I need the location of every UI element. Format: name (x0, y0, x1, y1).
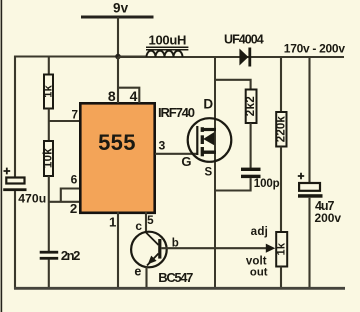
wire pin 4 (118, 88, 139, 103)
svg-text:BC547: BC547 (158, 270, 193, 285)
diode D1 UF4004 (239, 49, 248, 66)
IC U1 555 (80, 103, 154, 213)
resistor R4 2k2 (246, 90, 257, 124)
svg-text:c: c (135, 219, 142, 233)
svg-text:3: 3 (159, 139, 166, 153)
wire base to wiper arrow (161, 247, 266, 249)
wire pin 3 (155, 153, 198, 155)
resistor R1 1k (44, 75, 53, 109)
capacitor C4 4u7 (299, 183, 320, 191)
wire 220k to pot (280, 147, 282, 233)
9v supply rail (81, 16, 154, 19)
ground rail (14, 287, 345, 290)
svg-text:volt: volt (246, 255, 267, 267)
resistor R3 220k (276, 112, 286, 147)
svg-text:200v: 200v (315, 211, 342, 225)
wire 470u to ground rail (14, 191, 16, 289)
transistor Q1 BC547 (131, 232, 167, 268)
svg-text:e: e (134, 264, 141, 278)
wire R1 to R2 (48, 109, 50, 142)
svg-text:2: 2 (70, 201, 77, 216)
svg-text:2n2: 2n2 (61, 248, 81, 263)
wire branch to R1 (48, 57, 50, 75)
svg-text:out: out (250, 267, 268, 279)
capacitor C1 470u plus (4, 168, 11, 175)
wire 4u7 to ground rail (308, 198, 310, 289)
wire left rail (14, 56, 16, 178)
svg-text:1k: 1k (276, 242, 288, 255)
svg-text:220k: 220k (275, 116, 287, 143)
capacitor C1 470u (6, 178, 24, 184)
wire pin 6 (61, 189, 80, 202)
wire output to 220k (280, 57, 282, 112)
wire 9v rail to junction (117, 17, 119, 57)
svg-text:170v - 200v: 170v - 200v (284, 42, 346, 56)
potentiometer VR1 1k (276, 232, 287, 267)
wire top horizontal left (14, 55, 146, 57)
svg-text:1: 1 (109, 214, 116, 229)
wire pin 2 (49, 201, 80, 203)
capacitor C4 4u7 plus (298, 173, 304, 179)
svg-text:8: 8 (108, 88, 116, 104)
svg-text:7: 7 (72, 108, 79, 121)
wire 2n2 to ground rail (48, 260, 50, 290)
wire pin 1 (117, 212, 119, 289)
svg-text:D: D (203, 97, 213, 112)
wire pot to ground rail (280, 267, 282, 290)
inductor L1 100uH (147, 51, 183, 57)
capacitor C3 100p (241, 168, 261, 171)
svg-text:555: 555 (98, 130, 135, 155)
transistor Q2 IRF740 mosfet (188, 118, 232, 162)
svg-text:5: 5 (147, 214, 154, 227)
svg-text:UF4004: UF4004 (224, 33, 264, 47)
svg-text:adj: adj (251, 225, 268, 238)
wire pin 7 (49, 120, 80, 122)
wire 2k2 to 100p (250, 123, 252, 168)
svg-text:470u: 470u (18, 192, 46, 206)
svg-text:100p: 100p (254, 178, 280, 190)
wire snubber top (215, 80, 251, 90)
wire R2 to C2 (48, 176, 50, 251)
wire pin 8 (117, 57, 119, 103)
wire drain-source vertical (214, 57, 216, 289)
svg-text:1k: 1k (43, 84, 55, 97)
wire main output line (118, 56, 344, 58)
svg-text:4: 4 (130, 88, 138, 104)
svg-text:10k: 10k (43, 148, 55, 168)
wire emitter to ground rail (145, 267, 147, 290)
svg-text:2k2: 2k2 (245, 96, 257, 116)
svg-text:100uH: 100uH (149, 32, 187, 47)
wire pin 5 (145, 212, 147, 233)
svg-text:S: S (205, 167, 213, 179)
capacitor C2 2n2 (40, 251, 59, 254)
resistor R2 10k (44, 141, 53, 176)
wire 100p to source (215, 178, 251, 190)
svg-text:G: G (181, 154, 191, 169)
svg-text:9v: 9v (113, 1, 129, 16)
svg-text:6: 6 (71, 173, 78, 187)
wire 4u7 drop (308, 57, 310, 183)
svg-text:IRF740: IRF740 (158, 105, 195, 120)
node junction dot (115, 54, 121, 60)
